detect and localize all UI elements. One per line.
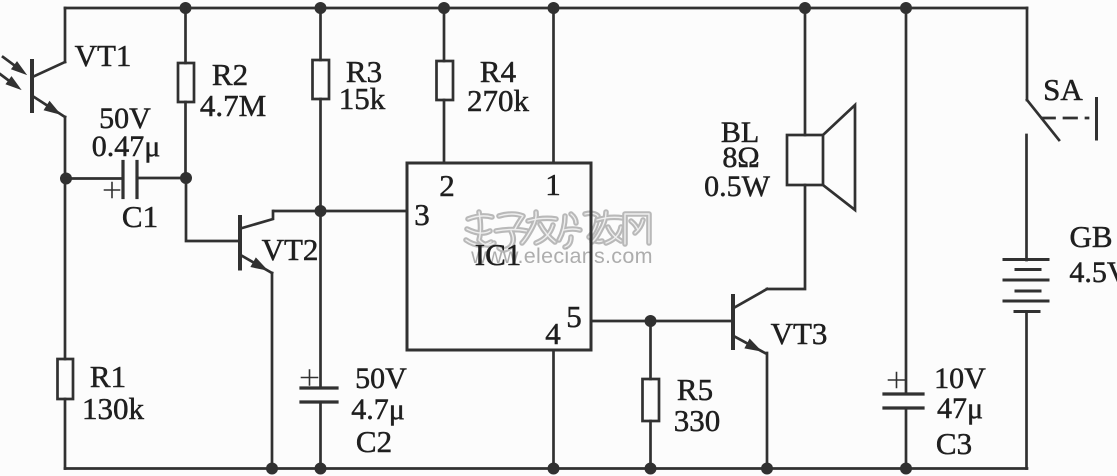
node R4 top [438, 2, 450, 14]
wire R5 to bottom rail [649, 421, 652, 469]
wire switch to battery [1025, 135, 1028, 260]
node VT3 emitter bottom [761, 463, 773, 475]
svg-text:5: 5 [566, 299, 582, 334]
wire C1 node down to VT2 base [186, 178, 240, 241]
wire top rail [65, 7, 1027, 10]
svg-text:3: 3 [414, 197, 430, 232]
svg-text:4: 4 [545, 316, 561, 351]
watermark chinese character you [592, 212, 623, 243]
svg-text:2: 2 [439, 168, 455, 203]
node pin1 top [548, 2, 560, 14]
light arrow 2 into VT1 [0, 74, 20, 89]
resistor R2 [178, 63, 194, 102]
phototransistor VT1 [32, 61, 65, 117]
wire VT2 emitter down [271, 273, 274, 469]
wire VT3 emitter to bottom rail [766, 353, 769, 469]
svg-text:R2: R2 [212, 57, 248, 92]
svg-text:IC1: IC1 [475, 237, 522, 272]
svg-text:GB: GB [1069, 219, 1112, 254]
wire top rail to IC1 pin1 [552, 8, 555, 163]
watermark chinese character shao [559, 213, 602, 247]
svg-text:50V: 50V [355, 362, 407, 395]
wire pin3 node to IC1 [320, 210, 407, 213]
wire battery to bottom rail [1025, 312, 1028, 469]
node VT2 collector / R3 / pin3 [315, 205, 327, 217]
watermark chinese character zi [496, 214, 527, 250]
node pin4 bottom [548, 463, 560, 475]
svg-text:VT2: VT2 [262, 232, 319, 267]
svg-text:1: 1 [545, 167, 561, 202]
capacitor C3 [884, 394, 923, 469]
switch SA dashed link [1042, 117, 1088, 120]
svg-text:0.47μ: 0.47μ [92, 130, 161, 163]
resistor R4 [437, 61, 454, 100]
watermark chinese character wang [625, 214, 649, 244]
svg-text:R1: R1 [90, 359, 126, 394]
plus sign of C1 [105, 183, 120, 198]
capacitor C2 [301, 388, 337, 469]
svg-text:C2: C2 [356, 424, 392, 459]
wire R4 to IC1 pin2 [443, 100, 446, 163]
switch SA terminal bar [1095, 99, 1098, 140]
wire left branch upper (top rail to VT1 collector) [64, 8, 67, 62]
transistor VT2 [240, 211, 273, 273]
wire top rail to R3 [319, 8, 322, 60]
wire VT3 collector step to speaker [767, 185, 805, 289]
plus sign of C3 [889, 373, 905, 388]
wire VT2 collector to pin3 node [274, 210, 320, 213]
watermark chinese character fa [522, 212, 556, 243]
node speaker top [799, 2, 811, 14]
resistor R3 [313, 60, 330, 99]
svg-text:C3: C3 [936, 426, 972, 461]
wire R3 to node [319, 99, 322, 211]
node R5 top [645, 315, 657, 327]
wire top rail to C3 [905, 8, 908, 394]
op-amp IC1 box [407, 163, 591, 350]
svg-text:130k: 130k [82, 391, 145, 426]
node VT2 emitter bottom [266, 463, 278, 475]
wire node down to C2 [319, 211, 322, 388]
svg-text:330: 330 [674, 403, 721, 438]
svg-text:SA: SA [1043, 72, 1083, 107]
wire node to R5 [649, 321, 652, 379]
svg-text:4.7M: 4.7M [200, 88, 266, 123]
node R5 bottom [645, 463, 657, 475]
svg-text:VT1: VT1 [75, 38, 132, 73]
switch SA blade [1027, 100, 1059, 140]
wire R1 to bottom rail [64, 399, 67, 469]
svg-text:47μ: 47μ [937, 392, 983, 425]
capacitor C1 [66, 162, 186, 198]
wire top rail to R4 [443, 8, 446, 61]
wire top rail to R2 [184, 8, 187, 63]
wire top rail to speaker [804, 8, 807, 135]
svg-text:VT3: VT3 [771, 316, 828, 351]
svg-text:0.5W: 0.5W [704, 170, 771, 203]
node C3 top [900, 2, 912, 14]
battery GB [1004, 260, 1048, 312]
svg-text:4.5V: 4.5V [1069, 256, 1117, 289]
node C1 right junction [180, 172, 192, 184]
wire bottom rail [65, 467, 1027, 470]
wire left branch (VT1 emitter down to R1) [64, 117, 67, 359]
plus sign of C2 [302, 370, 318, 385]
transistor VT3 [733, 289, 767, 353]
resistor R5 [643, 379, 660, 421]
wire IC1 pin5 to VT3 base [591, 320, 733, 323]
svg-text:R5: R5 [677, 372, 713, 407]
node C1 left junction [60, 173, 72, 185]
node C2 bottom [315, 463, 327, 475]
node C3 bottom [900, 463, 912, 475]
watermark chinese character dian [466, 212, 494, 245]
svg-text:15k: 15k [339, 81, 386, 116]
node R2 top [180, 2, 192, 14]
wire IC1 pin4 to bottom rail [552, 350, 555, 469]
resistor R1 [58, 359, 74, 399]
svg-text:270k: 270k [467, 83, 530, 118]
wire right branch top (rail corner to switch) [1026, 8, 1029, 100]
svg-text:4.7μ: 4.7μ [351, 393, 405, 426]
wire R2 to C1 node [184, 102, 187, 178]
svg-text:10V: 10V [934, 362, 986, 395]
node R3 top [315, 2, 327, 14]
svg-text:C1: C1 [122, 199, 158, 234]
light arrow 1 into VT1 [3, 57, 25, 74]
speaker BL [787, 105, 855, 210]
